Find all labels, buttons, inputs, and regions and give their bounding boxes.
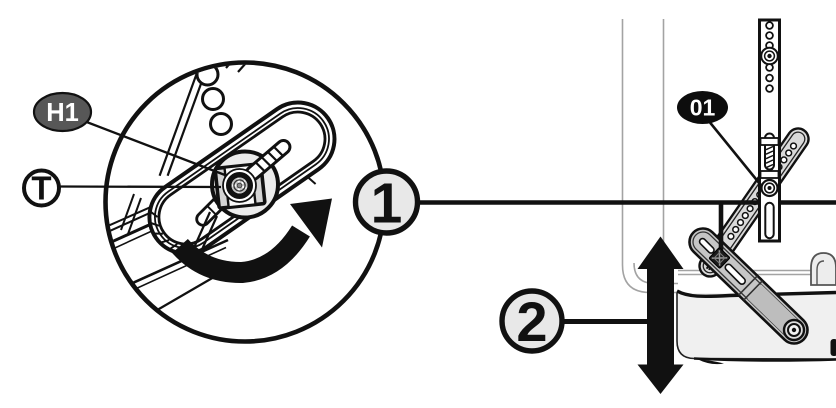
svg-text:T: T [31,170,51,207]
svg-text:H1: H1 [46,99,79,127]
svg-text:01: 01 [690,95,716,121]
svg-text:2: 2 [516,290,547,353]
svg-text:1: 1 [371,172,403,236]
